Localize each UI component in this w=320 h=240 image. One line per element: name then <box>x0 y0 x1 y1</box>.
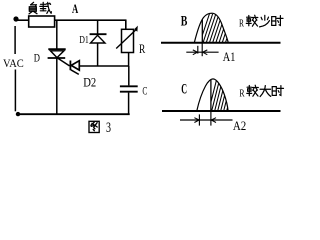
label R较大时 <box>239 85 283 99</box>
wire left vertical upper <box>14 26 16 54</box>
marker tick 1 C <box>198 114 200 125</box>
svg-text:R: R <box>139 42 146 56</box>
variable resistor R arrow <box>116 29 136 48</box>
svg-text:D1: D1 <box>79 34 89 46</box>
arrowhead left-pointing C <box>211 118 216 123</box>
wire top to triac D <box>56 20 58 49</box>
stroke overshoot below D2 <box>71 70 79 75</box>
arrowhead right-pointing B <box>193 50 198 55</box>
capacitor C top plate <box>120 85 138 87</box>
waveform B hump curve <box>194 13 228 43</box>
node dot bottom-left <box>16 112 20 116</box>
marker line under B <box>186 51 218 53</box>
gate wire triac to D2 <box>57 57 70 66</box>
waveform C firing edge <box>210 79 212 111</box>
svg-text:D: D <box>34 52 40 64</box>
svg-text:C: C <box>142 83 147 97</box>
wire left vertical lower <box>14 70 16 112</box>
load resistor box <box>29 16 55 27</box>
capacitor C bottom plate <box>120 91 138 93</box>
svg-text:3: 3 <box>106 120 111 136</box>
wire RC node down to capacitor <box>128 66 130 85</box>
arrowhead left-pointing B <box>203 50 208 55</box>
wire load box to node A to R column <box>55 19 127 21</box>
diac D2 cathode bar <box>69 61 71 71</box>
wire R to RC node <box>128 53 130 67</box>
triac D triangle <box>50 51 64 58</box>
wire top to D1 <box>97 20 99 34</box>
wire capacitor to bottom rail <box>128 93 130 115</box>
wire D1 to mid wire <box>97 43 99 66</box>
axis line C <box>162 110 281 112</box>
variable resistor R box <box>122 29 134 52</box>
caption 图 3 <box>89 120 111 136</box>
wire top to R <box>125 20 127 29</box>
svg-text:D2: D2 <box>83 75 96 89</box>
svg-text:R: R <box>239 17 244 29</box>
waveform C hump curve <box>197 79 228 111</box>
marker line under C <box>180 119 233 121</box>
wire D2 to RC node <box>80 65 129 67</box>
marker tick 2 B (firing edge extension) <box>201 43 203 57</box>
diode D1 triangle <box>91 35 106 43</box>
svg-text:R: R <box>239 87 245 99</box>
diode D1 cathode bar <box>90 33 107 35</box>
axis line B <box>161 42 281 44</box>
arrowhead right-pointing C <box>194 118 199 123</box>
svg-text:A2: A2 <box>233 118 246 133</box>
triac D top bar <box>48 48 65 50</box>
waveform B firing edge <box>201 19 203 42</box>
label R较少时 <box>239 15 283 29</box>
node dot top-left (VAC terminal) <box>13 16 18 21</box>
svg-text:A1: A1 <box>223 49 236 64</box>
diac D2 triangle <box>71 61 79 70</box>
svg-text:B: B <box>181 14 188 30</box>
wire triac to bottom rail <box>56 58 58 114</box>
marker tick 1 B <box>197 46 199 54</box>
wire dot to load box <box>18 19 29 21</box>
svg-text:VAC: VAC <box>3 58 24 70</box>
svg-text:A: A <box>72 1 79 16</box>
triac D apex bar <box>48 57 66 59</box>
marker tick 2 C (firing edge extension) <box>210 111 212 126</box>
label 负载 (load) <box>29 2 51 14</box>
svg-text:C: C <box>181 82 187 98</box>
bottom rail wire <box>17 113 130 115</box>
